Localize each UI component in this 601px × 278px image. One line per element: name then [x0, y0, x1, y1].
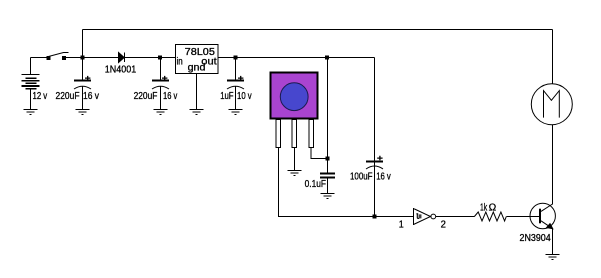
sensor pin 2	[292, 120, 296, 148]
svg-text:Ω: Ω	[489, 203, 497, 214]
node C junction dot	[234, 56, 237, 59]
capacitor C4 0.1uF	[320, 159, 335, 194]
inverter pin label 1	[399, 220, 404, 231]
motor M1	[531, 84, 572, 125]
resistor R1 1k	[474, 212, 506, 221]
svg-text:10 v: 10 v	[237, 91, 252, 102]
wire switch to diode anode	[66, 57, 119, 59]
sensor module (purple)	[271, 73, 318, 119]
ground (C3)	[229, 110, 243, 115]
svg-text:1k: 1k	[480, 203, 488, 214]
wire resistor to transistor base	[506, 216, 539, 218]
wire emitter to ground	[552, 229, 554, 254]
svg-text:1: 1	[399, 220, 404, 231]
sensor pin 3	[309, 120, 313, 148]
node F junction dot	[373, 215, 376, 218]
ground (C2)	[154, 110, 168, 115]
svg-text:gnd: gnd	[188, 63, 206, 74]
ground (C4)	[321, 194, 335, 199]
diode D1	[119, 53, 125, 63]
svg-text:2: 2	[441, 219, 447, 230]
svg-text:12 v: 12 v	[33, 91, 48, 102]
ground (pin2)	[288, 171, 302, 176]
node E junction dot	[326, 157, 329, 160]
diode D1 label 1N4001	[105, 65, 137, 76]
capacitor C3 labels	[220, 91, 252, 102]
capacitor C4 label	[305, 179, 326, 190]
capacitor C3 1uF	[227, 58, 244, 110]
battery B1	[22, 74, 40, 109]
capacitor C1 220uF	[74, 58, 91, 110]
ground (C1)	[76, 110, 90, 115]
switch S1	[47, 53, 69, 60]
svg-text:16 v: 16 v	[163, 91, 177, 102]
wire inverter output to resistor	[436, 216, 475, 218]
wire vertical from top wire down to motor	[552, 30, 554, 85]
node B junction dot	[159, 56, 162, 59]
node A junction dot	[81, 56, 84, 59]
capacitor C5 100uF	[366, 156, 383, 169]
battery label 12 v	[33, 91, 48, 102]
wire diode cathode to regulator input	[125, 57, 176, 59]
svg-text:0.1uF: 0.1uF	[305, 179, 326, 190]
svg-text:100uF: 100uF	[350, 172, 373, 183]
svg-text:2N3904: 2N3904	[520, 233, 552, 244]
wire pin3 right to node E	[311, 148, 328, 159]
inverter inner glyph	[416, 214, 420, 219]
wire battery positive lead to switch	[31, 58, 48, 75]
svg-text:220uF: 220uF	[56, 91, 80, 102]
ground (regulator)	[190, 110, 204, 115]
wire motor to collector	[552, 125, 554, 205]
wire regulator output rail	[218, 57, 375, 59]
capacitor C5 labels	[350, 172, 391, 183]
wire top horizontal from supply node to motor branch	[83, 29, 553, 31]
svg-text:in: in	[177, 56, 183, 67]
transistor Q1 label 2N3904	[520, 233, 552, 244]
wire regulator gnd pin	[196, 74, 198, 110]
regulator U1 78L05 box	[176, 45, 219, 74]
ground (Q1)	[546, 255, 560, 260]
wire vertical from top wire down to main rail node A	[82, 30, 84, 58]
capacitor C1 labels	[56, 91, 100, 102]
svg-text:1uF: 1uF	[220, 91, 233, 102]
inverter U2	[414, 208, 436, 225]
transistor Q1 2N3904	[530, 203, 555, 229]
inverter pin label 2	[441, 219, 447, 230]
regulator U1 labels	[177, 47, 217, 74]
ground (battery)	[24, 110, 38, 115]
wire vertical from rail corner down through C5 to bottom rail	[374, 58, 376, 217]
sensor pin 1	[276, 120, 280, 148]
wire pin2 to ground	[294, 148, 296, 171]
wire pin1 down and right along bottom rail to inverter	[279, 148, 414, 217]
svg-text:16 v: 16 v	[83, 91, 99, 102]
svg-text:16 v: 16 v	[376, 172, 391, 183]
capacitor C2 labels	[134, 91, 178, 102]
wire vertical x=327 from rail to node E	[327, 58, 329, 159]
capacitor C2 220uF	[152, 58, 169, 110]
svg-text:220uF: 220uF	[134, 91, 158, 102]
resistor R1 label 1k ohm	[480, 203, 497, 214]
svg-text:1N4001: 1N4001	[105, 65, 137, 76]
node D junction dot	[326, 56, 329, 59]
